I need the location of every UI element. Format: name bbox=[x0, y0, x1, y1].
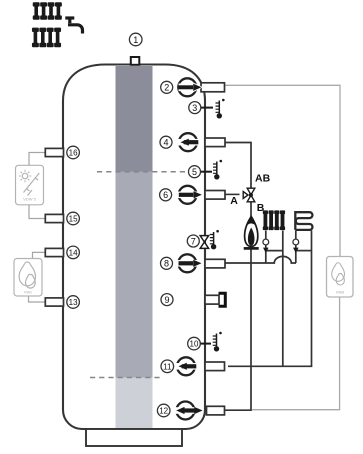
tank stratification stripe middle bbox=[116, 172, 153, 378]
node 3 bbox=[189, 102, 201, 114]
heater flange port 9 bbox=[219, 293, 226, 306]
port stub 9 bbox=[205, 295, 219, 304]
tank body bbox=[63, 65, 205, 430]
floor heating coil icon bbox=[295, 211, 312, 230]
port stub 6 bbox=[205, 191, 225, 200]
pump port 6 (arrow right) bbox=[177, 186, 204, 204]
wire radiator right leg bbox=[282, 231, 284, 367]
port stub 2 bbox=[201, 83, 225, 92]
thermometer port 7 bbox=[210, 230, 219, 250]
check valve radiator leg bbox=[263, 248, 269, 253]
radiator icon boiler circuit bbox=[263, 210, 285, 230]
node 12 bbox=[157, 404, 170, 417]
port stub 14 bbox=[45, 248, 63, 256]
svg-text:4: 4 bbox=[163, 138, 168, 148]
port stub 13 bbox=[45, 298, 63, 306]
legend tap bbox=[65, 18, 82, 34]
wire port4 to valve AB bbox=[225, 143, 251, 189]
drain valve port 7 bbox=[200, 236, 208, 249]
dashed level line lower bbox=[90, 377, 160, 379]
legend radiator 1 bbox=[33, 2, 62, 20]
svg-text:11: 11 bbox=[163, 362, 172, 371]
burner flame bbox=[244, 217, 259, 249]
svg-text:12: 12 bbox=[159, 407, 168, 416]
node 15 bbox=[67, 212, 80, 225]
tank stratification stripe bottom bbox=[116, 378, 153, 429]
sensor dash port 10 bbox=[200, 343, 211, 345]
svg-text:3: 3 bbox=[192, 103, 197, 113]
svg-text:14: 14 bbox=[69, 248, 78, 257]
wire port6 to valve A bbox=[225, 193, 240, 195]
svg-text:5: 5 bbox=[192, 167, 197, 177]
node 11 bbox=[161, 360, 174, 373]
svg-text:VDW 5: VDW 5 bbox=[23, 197, 36, 202]
valve center bbox=[249, 193, 253, 197]
svg-text:A: A bbox=[230, 195, 238, 207]
wire port8 with bridge over radiator leg bbox=[225, 256, 296, 263]
wire solar box to port15 (gray) bbox=[29, 205, 46, 219]
port stub 11 bbox=[205, 362, 225, 371]
solar station box bbox=[16, 165, 44, 205]
wire valve B to burner bbox=[250, 202, 252, 217]
wire solid-fuel box to port13 (gray) bbox=[29, 296, 46, 302]
3-way valve AB bbox=[243, 188, 255, 202]
tank stand bbox=[86, 429, 182, 446]
node 10 bbox=[188, 337, 201, 350]
svg-text:VKK: VKK bbox=[24, 290, 32, 295]
pump port 2 bbox=[178, 78, 203, 96]
port stub 8 bbox=[205, 259, 225, 268]
svg-text:2: 2 bbox=[164, 83, 169, 93]
dashed level line upper bbox=[97, 171, 187, 173]
svg-text:9: 9 bbox=[164, 295, 169, 305]
svg-text:8: 8 bbox=[164, 259, 169, 269]
node 8 bbox=[161, 257, 173, 269]
thermometer port 5 bbox=[213, 160, 222, 180]
pump port 8 (arrow right) bbox=[176, 254, 203, 272]
sensor dash port 3 bbox=[201, 107, 214, 109]
pump port 11 (arrow left) bbox=[175, 357, 198, 375]
tank stratification stripe top bbox=[116, 66, 153, 172]
solid fuel boiler box bbox=[14, 259, 42, 297]
pump radiator circuit bbox=[263, 239, 269, 245]
svg-text:VNB: VNB bbox=[336, 290, 345, 295]
port stub 4 bbox=[205, 138, 225, 147]
node 9 bbox=[161, 294, 173, 306]
wire floor-coil right leg bbox=[311, 231, 313, 367]
boiler VNB box bbox=[327, 257, 354, 298]
wire port2 to boiler VNB (gray) bbox=[225, 85, 340, 409]
node 4 bbox=[160, 136, 172, 148]
pump port 4 (arrow left) bbox=[177, 133, 200, 151]
node 1 bbox=[129, 33, 142, 46]
svg-text:1: 1 bbox=[133, 35, 138, 45]
node 5 bbox=[189, 166, 201, 178]
thermometer port 3 bbox=[216, 99, 225, 119]
wire port14 to solid-fuel box (gray) bbox=[33, 252, 46, 258]
node 14 bbox=[67, 246, 80, 259]
svg-text:16: 16 bbox=[69, 149, 78, 158]
thermometer port 10 bbox=[213, 332, 222, 352]
wire burner down to port12 corner bbox=[225, 249, 251, 410]
svg-text:15: 15 bbox=[69, 215, 78, 224]
check valve floor-coil leg bbox=[293, 248, 299, 253]
sensor dash port 5 bbox=[201, 171, 213, 173]
wire radiator left leg bbox=[265, 231, 267, 264]
port stub 12 bbox=[207, 406, 225, 415]
node 16 bbox=[67, 146, 80, 159]
node 2 bbox=[161, 81, 173, 93]
node 7 bbox=[187, 235, 199, 247]
port stub 15 bbox=[45, 214, 63, 222]
tank top cap bbox=[131, 57, 140, 65]
svg-text:7: 7 bbox=[191, 236, 196, 246]
svg-text:13: 13 bbox=[69, 298, 78, 307]
node 6 bbox=[160, 189, 172, 201]
pump port 12 (double arrow) bbox=[174, 402, 203, 420]
wire radiator branch bbox=[266, 250, 283, 252]
legend radiator 2 bbox=[32, 28, 61, 48]
wire floor-coil branch bbox=[296, 250, 312, 252]
node 13 bbox=[67, 296, 80, 309]
wire port11 header bbox=[228, 365, 312, 367]
wire floor-coil left leg bbox=[295, 231, 297, 264]
svg-text:6: 6 bbox=[163, 190, 168, 200]
wire port16 to solar box (gray) bbox=[29, 153, 46, 166]
pump floor circuit bbox=[293, 239, 299, 245]
port stub 16 bbox=[45, 148, 63, 156]
svg-text:AB: AB bbox=[255, 172, 271, 184]
svg-text:10: 10 bbox=[190, 340, 199, 349]
